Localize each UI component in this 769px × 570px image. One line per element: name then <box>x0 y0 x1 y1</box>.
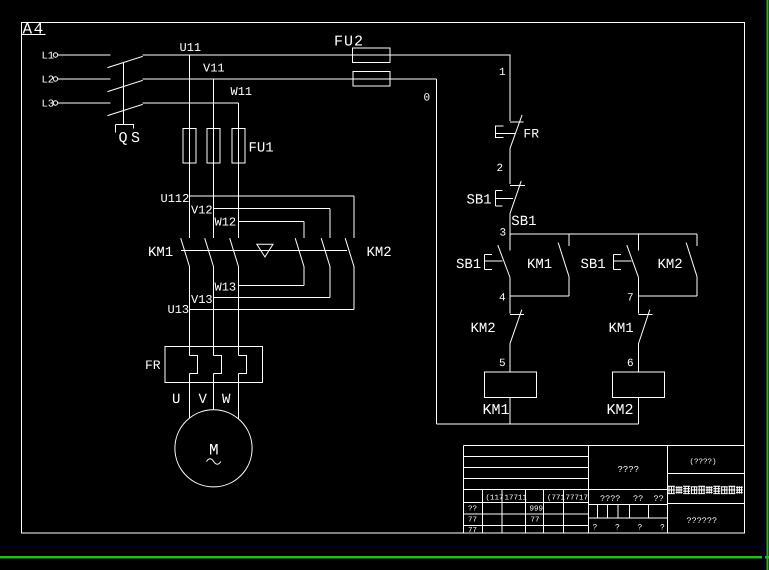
svg-text:W12: W12 <box>215 216 237 230</box>
svg-text:????: ???? <box>600 494 620 504</box>
svg-text:999: 999 <box>530 505 544 514</box>
svg-text:KM1: KM1 <box>148 245 173 261</box>
svg-text:77: 77 <box>531 517 540 525</box>
svg-text:U112: U112 <box>161 192 190 206</box>
svg-text:77: 77 <box>468 517 477 525</box>
svg-text:(117: (117 <box>486 494 504 503</box>
svg-text:W: W <box>222 392 231 408</box>
svg-text:6: 6 <box>627 358 634 370</box>
svg-text:FR: FR <box>145 358 161 373</box>
svg-text:77: 77 <box>468 527 477 535</box>
svg-text:FU1: FU1 <box>249 141 274 157</box>
svg-text:L3: L3 <box>42 99 55 111</box>
svg-text:M: M <box>209 442 219 460</box>
svg-text:U11: U11 <box>180 41 202 55</box>
svg-text:(????): (????) <box>690 458 717 467</box>
svg-text:KM1: KM1 <box>609 321 634 337</box>
svg-text:?: ? <box>660 524 665 533</box>
svg-text:U13: U13 <box>168 303 190 317</box>
svg-text:KM1: KM1 <box>527 257 552 273</box>
svg-text:SB1: SB1 <box>581 257 606 273</box>
svg-text:W13: W13 <box>215 281 237 295</box>
svg-text:SB1: SB1 <box>456 257 481 273</box>
svg-text:L1: L1 <box>42 51 55 63</box>
svg-text:??: ?? <box>654 494 664 504</box>
svg-text:V13: V13 <box>191 293 213 307</box>
svg-text:KM1: KM1 <box>483 402 510 419</box>
svg-text:7: 7 <box>627 293 634 305</box>
svg-text:KM2: KM2 <box>607 402 634 419</box>
svg-text:SB1: SB1 <box>467 193 492 209</box>
svg-text:U: U <box>172 392 180 408</box>
svg-text:V12: V12 <box>191 204 213 218</box>
svg-text:??????: ?????? <box>687 516 718 526</box>
svg-text:2: 2 <box>497 163 504 175</box>
svg-text:3: 3 <box>500 228 507 240</box>
svg-text:77717: 77717 <box>566 495 589 503</box>
svg-text:????: ???? <box>618 465 640 475</box>
svg-text:?: ? <box>638 524 643 533</box>
svg-text:1: 1 <box>499 67 506 79</box>
svg-text:?: ? <box>615 524 620 533</box>
svg-text:??: ?? <box>633 494 643 504</box>
svg-text:4: 4 <box>499 293 506 305</box>
svg-text:(771: (771 <box>547 494 566 503</box>
svg-text:V11: V11 <box>203 61 225 75</box>
svg-text:0: 0 <box>424 93 431 105</box>
svg-text:A4: A4 <box>23 21 45 39</box>
svg-text:FR: FR <box>523 127 539 142</box>
svg-text:KM2: KM2 <box>658 257 683 273</box>
svg-text:SB1: SB1 <box>511 214 536 230</box>
svg-text:KM2: KM2 <box>471 321 496 337</box>
svg-text:QS: QS <box>119 130 144 147</box>
svg-text:KM2: KM2 <box>367 245 392 261</box>
svg-text:??: ?? <box>468 505 477 514</box>
svg-text:?: ? <box>593 524 598 533</box>
svg-text:5: 5 <box>499 358 506 370</box>
svg-text:L2: L2 <box>42 75 55 87</box>
svg-text:17711: 17711 <box>505 495 528 503</box>
svg-text:W11: W11 <box>231 85 253 99</box>
svg-text:V: V <box>199 392 208 408</box>
